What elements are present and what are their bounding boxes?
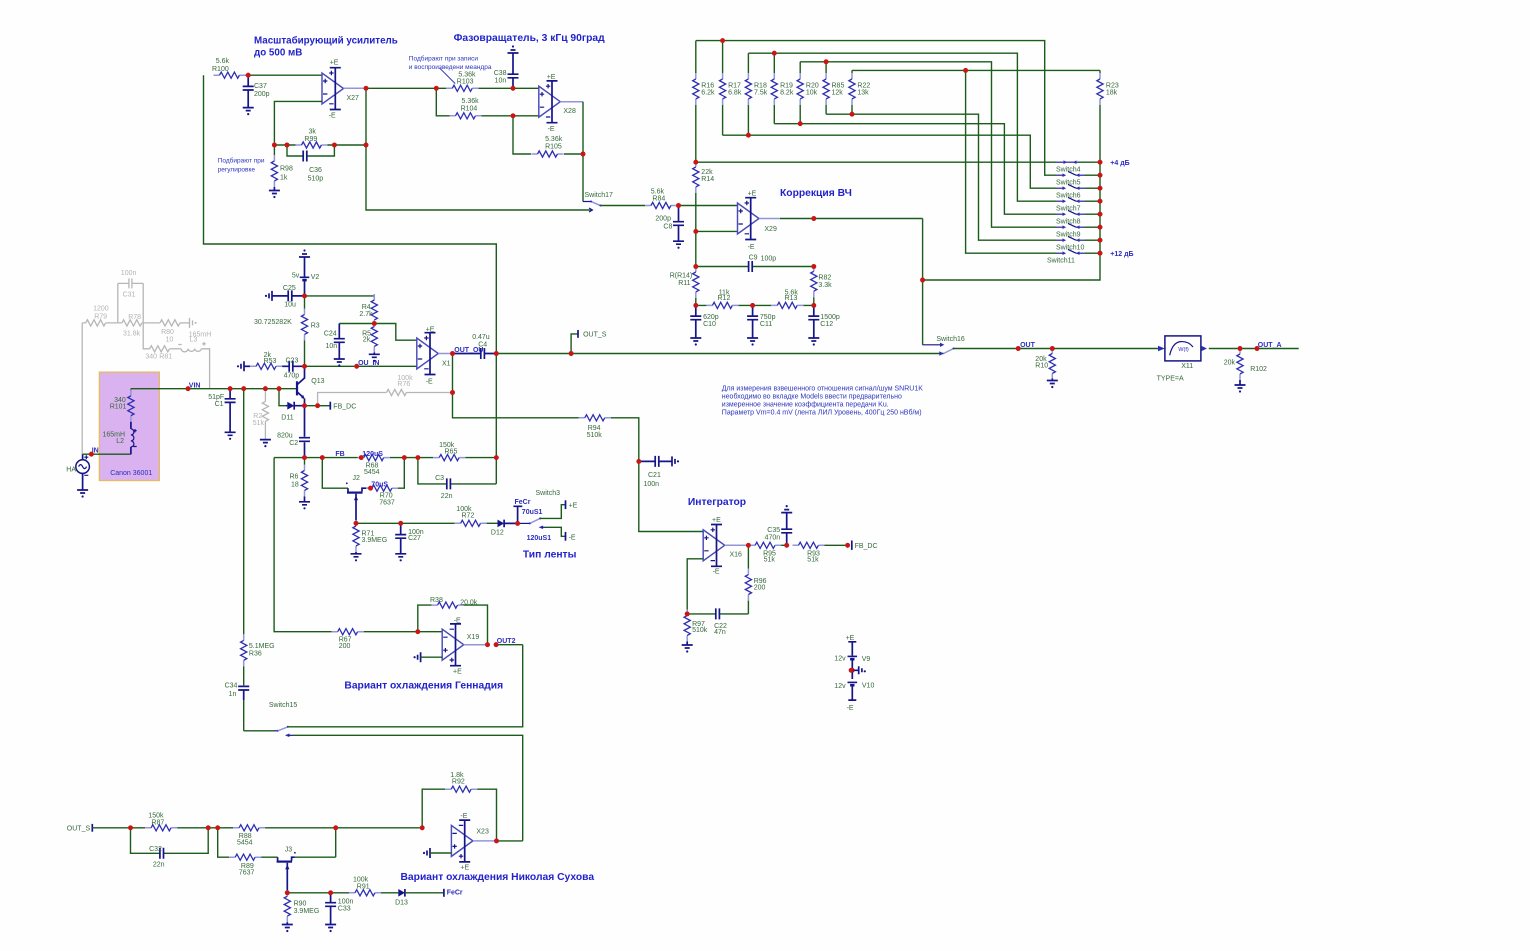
svg-text:C33: C33 [338,905,351,912]
node R36 branch [241,386,246,391]
resistor R71 [353,520,387,554]
svg-text:R87: R87 [151,820,164,827]
svg-text:R99: R99 [304,136,317,143]
wire gray left vertical [81,323,83,454]
switch Switch3 [518,490,578,524]
resistor R11 [670,266,699,305]
pointer line to R103 [439,68,455,84]
svg-text:R38: R38 [430,597,443,604]
node R95/C35 [784,543,789,548]
svg-text:R2: R2 [253,413,262,420]
capacitor C38 [494,45,519,88]
ground below C10 [690,338,701,346]
svg-text:470n: 470n [765,534,781,541]
svg-text:5454: 5454 [237,839,253,846]
svg-text:+E: +E [426,327,435,334]
resistor R6 [290,458,308,502]
node C4 output [494,351,499,356]
resistor R14 [693,160,715,232]
tag OUT_S [569,330,607,356]
wire C21 node to X16 +input [639,461,703,531]
switch Switch17 [583,154,613,207]
ground below C1 [225,432,236,440]
svg-text:Switch9: Switch9 [1056,232,1081,239]
wire down to R104 [436,88,449,116]
title Масштабирующий усилитель [254,36,398,59]
svg-text:120uS: 120uS [362,451,383,458]
node label +4 дБ [1110,160,1129,167]
svg-text:R23: R23 [1106,82,1119,89]
svg-text:+12 дБ: +12 дБ [1110,251,1133,258]
node X28 -input [511,113,539,118]
resistor R53 [237,352,282,372]
svg-text:R78: R78 [128,314,141,321]
node junction dot overlay [89,38,1259,895]
resistor R68 [358,451,390,476]
node D11/C2 [302,403,320,408]
svg-text:-E: -E [426,378,433,385]
switch Switch4 closed [1056,160,1081,173]
svg-text:X29: X29 [764,226,777,233]
svg-text:5.36k: 5.36k [545,136,563,143]
wire rail4 R22-R23 tops to Switch10 [852,68,1100,253]
node R97 junction [685,612,690,617]
note Подбирают при записи [409,55,492,72]
wire X27 output down to bypass line [366,88,592,212]
svg-text:100n: 100n [644,481,660,488]
wire rail7 R17-R18 bottoms to Switch5 [723,133,1056,188]
wire +4dB rail [696,161,1100,163]
svg-text:Коррекция ВЧ: Коррекция ВЧ [780,188,852,199]
svg-text:200: 200 [754,584,766,591]
ground below C24 [334,359,345,367]
capacitor C22 [687,608,748,636]
capacitor C32 [131,828,209,869]
svg-text:R6: R6 [290,473,299,480]
svg-text:200: 200 [339,643,351,650]
ground above V2 [299,249,310,257]
svg-text:Switch11: Switch11 [1047,258,1075,265]
ground below C8 [673,241,684,249]
op-amp X27 [322,60,359,120]
resistor R70 [366,458,404,507]
wire rail3 R20-R85 tops to Switch8 [800,59,1056,227]
svg-text:OU_IN: OU_IN [358,360,379,367]
svg-text:R79: R79 [94,314,107,321]
resistor R84 [600,188,678,208]
svg-text:12k: 12k [832,90,844,97]
capacitor C12 [808,305,840,338]
svg-text:7637: 7637 [379,499,395,506]
svg-text:R91: R91 [357,883,370,890]
wire J3 source line [287,890,349,895]
svg-text:X1: X1 [442,361,451,368]
node R38 branch [415,629,420,634]
svg-text:W(f): W(f) [1178,347,1189,353]
svg-text:10k: 10k [806,90,818,97]
resistor R100 [212,58,248,78]
svg-text:510k: 510k [587,432,603,439]
svg-text:X16: X16 [730,552,743,559]
svg-text:3.9MEG: 3.9MEG [362,537,388,544]
svg-text:Switch3: Switch3 [536,490,561,497]
svg-text:R101: R101 [110,403,127,410]
svg-text:C4: C4 [478,342,487,349]
svg-text:20k: 20k [1224,359,1236,366]
diode D13 [395,889,444,907]
svg-text:необходимо во вкладке Models в: необходимо во вкладке Models ввести пред… [722,393,902,401]
svg-text:R82: R82 [818,275,831,282]
svg-text:C35: C35 [767,527,780,534]
battery V2 [292,257,319,296]
svg-text:OUT2: OUT2 [497,638,516,645]
svg-text:22n: 22n [153,862,165,869]
svg-text:J2: J2 [353,475,361,482]
svg-text:Switch7: Switch7 [1056,206,1081,213]
ground below R98 [269,191,280,199]
svg-text:18: 18 [291,482,299,489]
resistor R78 gray [122,314,160,338]
svg-text:0.47u: 0.47u [472,334,490,341]
svg-text:-E: -E [748,244,755,251]
svg-text:51k: 51k [807,556,819,563]
svg-text:J3: J3 [285,846,293,853]
title Коррекция ВЧ [780,188,852,199]
resistor R94 [453,354,639,462]
capacitor C8 [655,206,684,242]
node FB dots [302,451,364,460]
svg-text:51k: 51k [253,420,265,427]
wire OUT line [954,348,1159,350]
svg-text:1500p: 1500p [820,314,840,321]
svg-text:C21: C21 [648,472,661,479]
svg-text:C3: C3 [435,475,444,482]
ground below C12 [808,338,819,346]
svg-text:R80: R80 [161,329,174,336]
wire rail1 R16-R17 tops to Switch4 [696,38,1056,175]
svg-text:100p: 100p [761,255,777,262]
resistor R38 [418,597,488,645]
svg-text:R11: R11 [678,280,690,287]
svg-text:8.2k: 8.2k [780,90,794,97]
svg-text:C2: C2 [289,440,298,447]
svg-text:R14: R14 [701,176,714,183]
switch Switch5 [1056,171,1100,186]
resistor R13 [753,289,814,308]
ground below R71 [351,554,362,562]
capacitor C9 [693,254,813,272]
svg-text:R12: R12 [718,295,731,302]
ground below R102 [1235,385,1246,393]
svg-text:R72: R72 [462,513,475,520]
svg-text:+E: +E [330,60,339,67]
node X1 output to R94 [450,390,455,395]
svg-text:6.8k: 6.8k [728,90,742,97]
resistor R36 [241,634,275,685]
svg-text:Для измерения взвешенного отно: Для измерения взвешенного отношения сигн… [722,386,923,393]
svg-text:и воспроизведени меандра: и воспроизведени меандра [409,64,492,71]
svg-text:10: 10 [166,337,174,344]
resistor R89 [218,828,278,877]
svg-text:R98: R98 [280,166,293,173]
svg-text:Подбирают при: Подбирают при [218,157,265,165]
node R65/C4 vertical junction [494,354,499,484]
svg-text:FB: FB [335,451,344,458]
tie X23 +input [423,848,452,858]
svg-text:70uS: 70uS [371,482,388,489]
node R82/R13/C12 [811,303,816,308]
tag FB_DC right [845,541,877,551]
resistor R5 [362,321,377,355]
battery V9 [834,656,870,671]
switch Switch11 [1047,249,1100,264]
capacitor C24 [324,324,375,360]
svg-text:R36: R36 [249,651,262,658]
svg-text:R18: R18 [754,82,767,89]
svg-text:X27: X27 [347,95,360,102]
node C21 junction [636,459,641,464]
svg-text:C1: C1 [215,401,224,408]
svg-text:Фазовращатель, 3 кГц 90град: Фазовращатель, 3 кГц 90град [454,33,606,44]
svg-text:-E: -E [847,705,854,712]
svg-text:C10: C10 [703,321,716,328]
svg-text:Switch4: Switch4 [1056,167,1081,174]
svg-text:18k: 18k [1106,90,1118,97]
resistor R92 [422,772,496,841]
switch Switch6 [1056,184,1100,199]
svg-text:R94: R94 [588,425,601,432]
resistor R79 gray [82,306,122,326]
node R84/C8 [676,203,737,208]
svg-text:R103: R103 [457,79,474,86]
svg-text:Параметр Vm=0.4 mV (лента ЛИЛ: Параметр Vm=0.4 mV (лента ЛИЛ Уровень, 4… [722,409,922,417]
svg-text:+E: +E [748,191,757,198]
resistor R88 [218,825,423,847]
svg-text:FeCr: FeCr [515,499,531,506]
wire to X27 +input [248,74,322,76]
box Canon 36001 [99,372,159,480]
capacitor C2 [277,406,310,458]
resistor R105 [513,116,583,157]
resistor R103 [436,71,513,91]
svg-text:+E: +E [846,635,855,642]
title Интегратор [688,497,746,508]
X28 output lead [560,102,583,154]
svg-text:470p: 470p [284,372,300,379]
capacitor C25 [265,285,305,309]
svg-text:1n: 1n [229,691,237,698]
svg-text:R100: R100 [212,66,229,73]
svg-text:Q13: Q13 [311,378,324,385]
svg-text:Canon 36001: Canon 36001 [110,470,152,477]
resistor R4 [359,294,377,326]
node R87 left [128,825,133,830]
wire X11 output [1201,348,1299,350]
svg-text:C11: C11 [760,321,772,328]
tag OUT_S bottom [67,824,131,833]
svg-text:C8: C8 [663,224,672,231]
svg-text:5454: 5454 [364,469,380,476]
svg-text:VIN: VIN [189,382,201,389]
tag +E supply [846,635,857,656]
title Фазовращатель [454,33,606,44]
wire X16 -input loop [687,559,703,614]
node OUT_A [1255,342,1282,351]
node R11/R12 [693,303,698,308]
svg-text:Switch6: Switch6 [1056,193,1081,200]
svg-text:V10: V10 [862,682,875,689]
svg-text:Интегратор: Интегратор [688,497,746,508]
node R12/C11 [750,303,755,308]
switch Switch16 top throw [923,336,965,347]
wire VIN branch down to R36 [243,389,245,635]
svg-text:R20: R20 [806,82,819,89]
switch Switch7 [1056,197,1100,212]
resistor R101 [110,389,134,422]
svg-text:5v: 5v [292,273,300,280]
resistor R17 [720,41,742,136]
tag FeCr [513,499,530,523]
node R105 output junction [581,152,586,157]
svg-text:51pF: 51pF [208,394,224,401]
note Подбирают при регулировке [218,157,265,174]
svg-text:R102: R102 [1250,366,1267,373]
svg-text:R76: R76 [397,381,410,388]
svg-text:R90: R90 [294,900,307,907]
resistor R80 gray [160,320,189,344]
node junctions on R99 line [272,143,368,148]
switch Switch15 lower throw [285,734,523,841]
resistor R3 [254,296,320,366]
resistor R97 [684,610,708,646]
op-amp X16 [703,517,742,576]
diode D12 [491,520,518,537]
svg-text:+E: +E [569,502,578,509]
svg-text:70uS1: 70uS1 [522,509,543,516]
svg-text:340: 340 [145,353,157,360]
svg-text:200p: 200p [254,91,270,98]
wire R4 node to X1 +input [374,324,417,341]
svg-text:X19: X19 [467,634,480,641]
svg-text:510p: 510p [308,175,324,182]
svg-text:D13: D13 [395,900,408,907]
svg-text:Switch5: Switch5 [1056,180,1081,187]
svg-text:5.1MEG: 5.1MEG [249,643,275,650]
svg-text:R(R14): R(R14) [670,273,693,280]
svg-text:L2: L2 [116,438,124,445]
op-amp X19 mirrored [442,617,479,675]
svg-text:Подбирают при записи: Подбирают при записи [409,55,479,63]
ground below R6 [299,502,310,510]
svg-text:-E: -E [569,534,576,541]
diode D11 [277,386,305,421]
svg-text:C36: C36 [309,167,322,174]
resistor R91 [349,876,398,896]
wire rail6 R19-R20 bottoms to Switch7 [774,121,1056,214]
ground below C11 [747,338,758,346]
transistor J3 [277,828,336,893]
tie X19 +input [414,652,443,662]
svg-text:-E: -E [329,113,336,120]
switch Switch9 [1056,223,1100,238]
svg-text:OUT_S: OUT_S [583,331,607,338]
svg-text:12v: 12v [834,683,846,690]
note SNRU1K paragraph [722,386,923,417]
resistor R98 [271,145,293,191]
switch Switch16 blade [939,348,954,356]
resistor R72 [455,506,498,527]
svg-text:L3: L3 [190,337,198,344]
svg-text:-E: -E [460,813,467,820]
resistor R95 [749,542,787,563]
svg-text:HA: HA [66,467,76,474]
node R88 right [333,825,338,830]
svg-text:31.8k: 31.8k [123,331,141,338]
svg-text:R16: R16 [701,82,714,89]
op-amp X23 mirrored [451,813,489,872]
wire C25 node to R4 [305,296,375,298]
ground below R2 [260,440,271,448]
svg-text:TYPE=A: TYPE=A [1157,376,1184,383]
svg-text:7.5k: 7.5k [754,90,768,97]
title Вариант охлаждения Геннадия [344,681,503,692]
svg-text:820u: 820u [277,432,293,439]
svg-text:5.6k: 5.6k [216,58,230,65]
capacitor C34 [225,682,250,730]
wire X29 output feedback vertical [920,219,925,345]
X16 output lead [725,543,751,548]
svg-text:Вариант охлаждения Геннадия: Вариант охлаждения Геннадия [344,681,503,692]
svg-text:2.7k: 2.7k [359,311,373,318]
capacitor C3 [418,458,496,500]
resistor R10 [1035,346,1055,380]
node label +12 дБ [1110,251,1133,258]
node C25 junction [302,294,307,299]
resistor R81 gray [143,323,181,360]
inductor L3 gray coil [178,342,209,389]
ground below R97 [682,645,693,653]
svg-text:1200: 1200 [93,306,109,313]
X1 output lead [438,347,483,356]
resistor R2 gray [253,386,269,439]
tag FB_DC [318,402,357,411]
capacitor C31 gray [118,270,143,323]
ground below HA [77,490,88,498]
svg-text:R53: R53 [264,358,277,365]
op-amp X28 [539,74,576,133]
svg-text:D11: D11 [281,415,293,422]
svg-text:C12: C12 [820,321,833,328]
svg-text:X28: X28 [563,108,576,115]
svg-text:22n: 22n [441,493,453,500]
svg-text:510k: 510k [692,627,708,634]
capacitor C36 loop [287,145,334,182]
svg-text:C34: C34 [225,682,238,689]
node junction [246,73,251,78]
X29 output lead [759,216,923,221]
capacitor C33 [325,893,353,925]
ground below R90 [282,925,293,933]
macro X11 W(f) [1157,336,1207,383]
resistor R90 [284,890,319,924]
svg-text:6.2k: 6.2k [701,90,715,97]
resistor R87 [131,813,218,831]
svg-text:-E: -E [454,617,461,624]
svg-text:Switch17: Switch17 [585,192,614,199]
svg-text:R105: R105 [545,143,562,150]
node X29 -input [693,229,737,267]
svg-text:5.36k: 5.36k [462,98,480,105]
